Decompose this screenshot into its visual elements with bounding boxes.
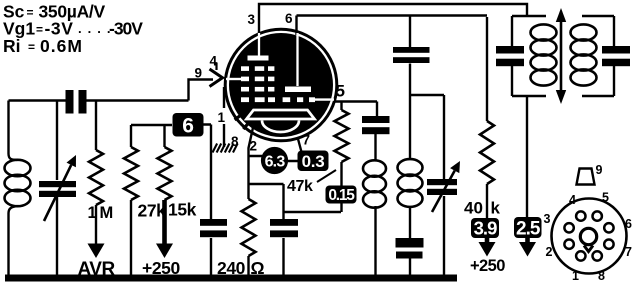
svg-text:0.15: 0.15 bbox=[328, 187, 355, 204]
svg-text:1: 1 bbox=[88, 204, 97, 222]
svg-text:8: 8 bbox=[231, 134, 239, 149]
svg-text:1: 1 bbox=[572, 269, 579, 283]
svg-text:4: 4 bbox=[569, 193, 576, 207]
svg-text:2: 2 bbox=[546, 245, 553, 259]
svg-text:2.5: 2.5 bbox=[516, 218, 541, 239]
svg-text:k: k bbox=[491, 199, 501, 218]
svg-text:6.3: 6.3 bbox=[265, 154, 286, 171]
svg-text:47k: 47k bbox=[287, 178, 313, 195]
svg-text:240: 240 bbox=[217, 258, 246, 278]
svg-text:7: 7 bbox=[303, 133, 311, 148]
svg-text:Ri: Ri bbox=[3, 36, 21, 56]
svg-text:9: 9 bbox=[596, 163, 603, 177]
svg-text:0.6M: 0.6M bbox=[40, 36, 83, 56]
svg-text:7: 7 bbox=[625, 245, 632, 259]
svg-text:AVR: AVR bbox=[78, 259, 116, 280]
svg-text:40: 40 bbox=[464, 199, 483, 218]
svg-text:6: 6 bbox=[285, 11, 293, 26]
svg-text:. . . .: . . . . bbox=[78, 21, 112, 36]
svg-text:8: 8 bbox=[598, 269, 605, 283]
svg-text:Ω: Ω bbox=[251, 258, 265, 278]
svg-text:=: = bbox=[27, 6, 34, 20]
svg-text:15k: 15k bbox=[168, 200, 197, 220]
svg-text:6: 6 bbox=[182, 114, 193, 137]
svg-text:3: 3 bbox=[544, 212, 551, 226]
svg-text:6: 6 bbox=[625, 217, 632, 231]
svg-text:4: 4 bbox=[210, 54, 218, 69]
svg-text:5: 5 bbox=[602, 191, 609, 205]
svg-text:+250: +250 bbox=[470, 257, 505, 275]
svg-text:2: 2 bbox=[250, 139, 258, 154]
svg-text:3.9: 3.9 bbox=[474, 218, 497, 239]
svg-text:9: 9 bbox=[195, 66, 203, 81]
svg-text:M: M bbox=[100, 204, 114, 222]
svg-text:27k: 27k bbox=[138, 201, 167, 221]
svg-text:-30V: -30V bbox=[109, 19, 143, 39]
svg-text:5: 5 bbox=[336, 82, 345, 101]
svg-text:=: = bbox=[36, 23, 43, 37]
svg-text:+250: +250 bbox=[142, 258, 180, 278]
svg-text:1: 1 bbox=[218, 110, 226, 125]
svg-text:3: 3 bbox=[248, 12, 256, 27]
svg-text:0.3: 0.3 bbox=[302, 152, 325, 171]
svg-text:=: = bbox=[28, 40, 35, 54]
